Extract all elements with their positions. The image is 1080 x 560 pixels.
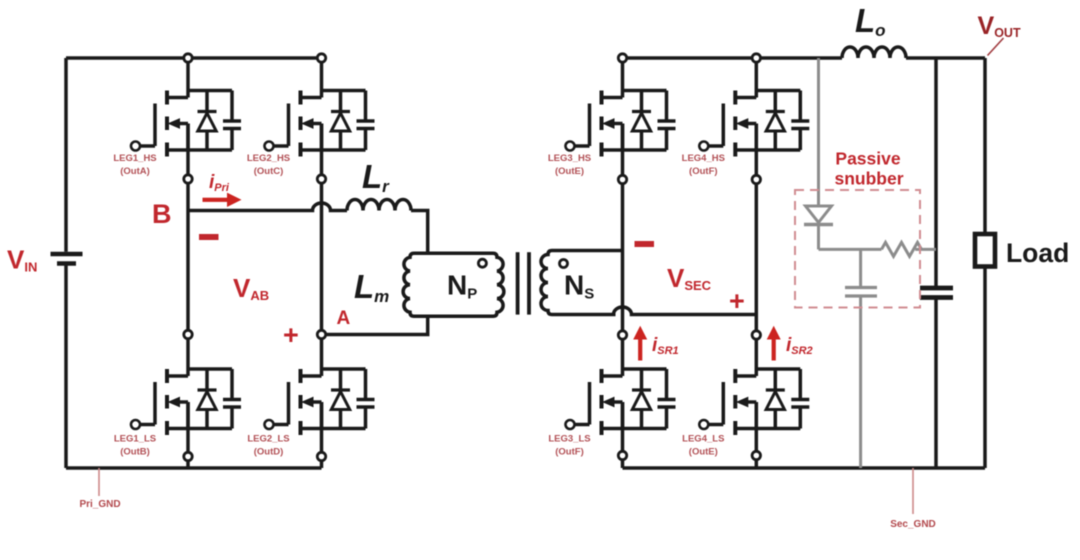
svg-text:(OutE): (OutE) (689, 447, 718, 458)
svg-text:LEG4_HS: LEG4_HS (682, 153, 725, 164)
svg-text:+: + (283, 320, 299, 350)
svg-text:(OutB): (OutB) (120, 447, 150, 458)
svg-text:Load: Load (1006, 238, 1069, 268)
svg-text:snubber: snubber (834, 169, 903, 189)
svg-text:LEG3_HS: LEG3_HS (548, 153, 591, 164)
svg-text:Pri_GND: Pri_GND (79, 499, 120, 510)
svg-text:Passive: Passive (835, 149, 900, 169)
svg-text:LEG2_LS: LEG2_LS (247, 434, 289, 445)
svg-text:LEG3_LS: LEG3_LS (548, 434, 590, 445)
svg-text:(OutA): (OutA) (120, 166, 150, 177)
svg-text:B: B (152, 199, 172, 229)
svg-text:(OutF): (OutF) (555, 447, 584, 458)
svg-text:LEG1_HS: LEG1_HS (113, 153, 156, 164)
svg-text:(OutE): (OutE) (555, 166, 584, 177)
svg-text:(OutF): (OutF) (689, 166, 718, 177)
svg-text:Sec_GND: Sec_GND (890, 519, 936, 530)
svg-text:(OutD): (OutD) (254, 447, 284, 458)
svg-text:LEG4_LS: LEG4_LS (682, 434, 724, 445)
svg-text:+: + (729, 286, 745, 316)
svg-text:(OutC): (OutC) (254, 166, 284, 177)
svg-text:A: A (337, 308, 351, 329)
svg-text:LEG1_LS: LEG1_LS (114, 434, 156, 445)
svg-text:LEG2_HS: LEG2_HS (247, 153, 290, 164)
